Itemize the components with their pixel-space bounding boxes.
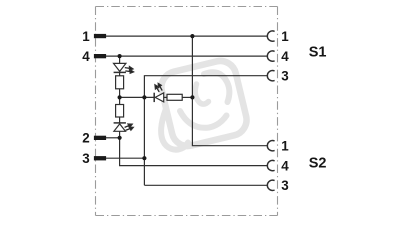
svg-text:1: 1 — [281, 139, 289, 154]
svg-text:4: 4 — [82, 49, 90, 64]
terminal pin 2 (black block) — [94, 136, 106, 140]
svg-text:3: 3 — [281, 178, 288, 193]
resistor R1 — [116, 76, 124, 89]
wire pin2 node down to S2-4 — [120, 138, 268, 166]
socket contact S1-3 — [267, 71, 274, 81]
wire R2 to LED2 — [119, 117, 121, 123]
LED D1 (cathode down) — [114, 63, 134, 73]
terminal pin 3 (black block) — [94, 156, 106, 160]
watermark logo (light gray, rotated rounded square with curl glyph) — [158, 58, 250, 150]
node: junction LED chain mid — [118, 95, 122, 99]
socket contact S2-3 — [267, 180, 274, 190]
node: junction pin2 — [118, 136, 122, 140]
wire node B down to S2-3 — [144, 184, 267, 186]
resistor R2 — [116, 105, 124, 118]
svg-text:1: 1 — [82, 29, 90, 44]
terminal pin 4 (black block) — [94, 54, 106, 58]
wire pin1 to S1-1 — [106, 35, 267, 37]
wire LED1 to resistor R1 — [119, 72, 121, 76]
svg-text:4: 4 — [281, 49, 289, 64]
LED D2 (cathode up) — [114, 123, 134, 132]
socket contact group (S1/S2) — [267, 31, 274, 191]
wire pin4 to S1-4 — [106, 55, 267, 57]
socket contact S2-4 — [267, 160, 274, 170]
wire pin3 to node B — [106, 157, 144, 159]
socket contact S2-1 — [267, 141, 274, 151]
socket contact S1-1 — [267, 31, 274, 41]
node: junction pin1/vertical C — [190, 34, 194, 38]
terminal pin 1 (black block) — [94, 34, 106, 38]
wire R1 to node mid — [119, 89, 121, 105]
wire LED3 to R3 — [164, 96, 167, 98]
wire R3 to node C — [182, 96, 192, 98]
svg-text:S1: S1 — [309, 44, 327, 60]
wire LED2 to pin2 node — [119, 131, 121, 138]
svg-text:4: 4 — [281, 159, 289, 174]
wire pin2 to LED chain node — [106, 137, 120, 139]
LED D3 (horizontal, cathode left) — [153, 82, 163, 102]
svg-text:3: 3 — [82, 151, 89, 166]
resistor R3 — [167, 94, 182, 100]
svg-text:S2: S2 — [309, 155, 327, 171]
node: junction vertical B / mid branch — [142, 95, 146, 99]
wire LED chain top segment — [119, 56, 121, 63]
svg-text:3: 3 — [281, 69, 288, 84]
node: junction pin4/LED chain — [118, 54, 122, 58]
svg-text:1: 1 — [281, 29, 289, 44]
node: junction pin3 / vertical B — [142, 156, 146, 160]
svg-text:2: 2 — [82, 131, 89, 146]
enclosure outline (dash-dot border) — [96, 7, 278, 216]
wire node B up and right to S1-3 — [144, 76, 267, 186]
wire mid node to LED3 — [120, 96, 155, 98]
socket contact S1-4 — [267, 51, 274, 61]
wire node C down to S2-1 — [192, 36, 267, 146]
wire group — [106, 36, 267, 185]
node: junction vertical C / mid branch — [190, 95, 194, 99]
